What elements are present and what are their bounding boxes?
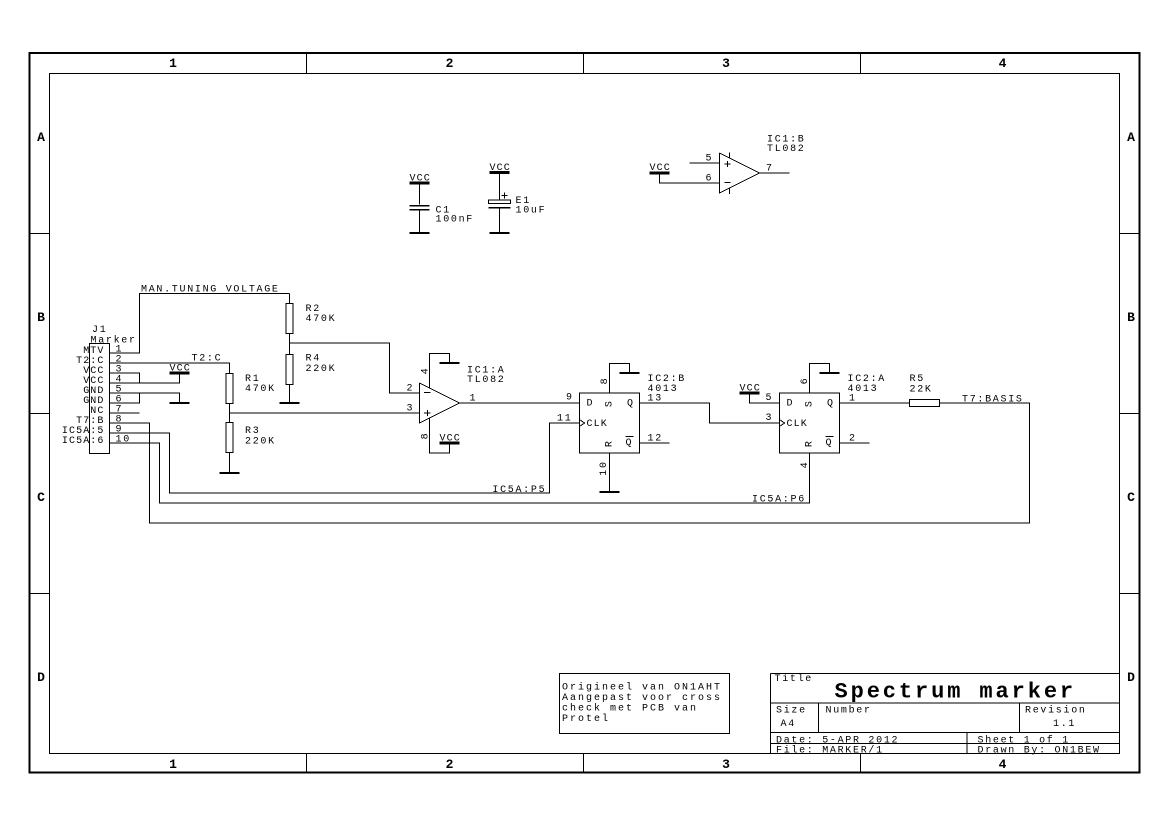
ground bar below E1 bbox=[490, 232, 510, 234]
svg-text:3: 3 bbox=[407, 403, 415, 414]
svg-text:A4: A4 bbox=[781, 719, 796, 730]
ground bar below R3 bbox=[220, 472, 240, 474]
wire R2/R4 junction to IC1:A pin 2 bbox=[290, 343, 420, 394]
svg-text:10: 10 bbox=[599, 460, 610, 475]
capacitor C1 100nF bbox=[410, 183, 475, 233]
svg-text:1: 1 bbox=[169, 56, 177, 71]
svg-text:Aangepast voor cross: Aangepast voor cross bbox=[562, 693, 722, 704]
wire J1 pin2 T2:C to R1 bbox=[110, 363, 230, 374]
svg-text:CLK: CLK bbox=[787, 419, 808, 430]
svg-text:470K: 470K bbox=[306, 314, 337, 325]
svg-text:S: S bbox=[804, 400, 815, 407]
ground bar below C1 bbox=[410, 232, 430, 234]
svg-text:IC5A:P6: IC5A:P6 bbox=[752, 494, 806, 505]
svg-text:1.1: 1.1 bbox=[1053, 719, 1076, 730]
svg-text:Q: Q bbox=[627, 399, 634, 410]
wire J1 pins 5,6 to ground bbox=[110, 393, 180, 403]
svg-text:10: 10 bbox=[116, 434, 131, 445]
svg-text:2: 2 bbox=[446, 56, 454, 71]
svg-text:2: 2 bbox=[849, 433, 857, 444]
net label IC5A:P5 bbox=[492, 485, 546, 496]
wire IC2:A Q pin1 to R5 bbox=[840, 394, 910, 405]
svg-text:2: 2 bbox=[446, 757, 454, 772]
svg-text:13: 13 bbox=[648, 394, 663, 405]
svg-text:4: 4 bbox=[999, 56, 1007, 71]
svg-text:Number: Number bbox=[826, 705, 872, 717]
svg-text:R: R bbox=[604, 440, 615, 447]
op-amp IC1:A TL082 bbox=[420, 366, 506, 424]
wire IC2:A Qbar pin2 stub bbox=[840, 433, 870, 444]
net label MAN.TUNING VOLTAGE bbox=[141, 285, 280, 296]
ground bar below R4 bbox=[280, 402, 300, 404]
svg-text:Origineel van ON1AHT: Origineel van ON1AHT bbox=[562, 682, 722, 694]
svg-text:12: 12 bbox=[648, 433, 663, 444]
svg-text:R4: R4 bbox=[306, 354, 321, 365]
capacitor E1 10uF electrolytic bbox=[489, 173, 547, 234]
svg-text:6: 6 bbox=[706, 173, 714, 184]
wire J1 pin9 to IC5A:P5 / IC2:B CLK pin 11 bbox=[110, 413, 580, 493]
pin 6 wire (IC1:B -) bbox=[660, 173, 720, 184]
wire J1 pin7 NC stub bbox=[110, 412, 140, 414]
flip-flop IC2:B 4013 bbox=[580, 374, 687, 453]
svg-text:T7:BASIS: T7:BASIS bbox=[962, 395, 1024, 406]
svg-text:1: 1 bbox=[169, 757, 177, 772]
flip-flop IC2:A 4013 bbox=[780, 374, 887, 453]
svg-text:11: 11 bbox=[557, 413, 572, 424]
svg-text:2: 2 bbox=[407, 383, 415, 394]
net label T7:BASIS bbox=[962, 395, 1024, 406]
resistor R1 470K bbox=[226, 374, 276, 414]
pin 4 stub with ground bar (IC1:A) bbox=[421, 354, 460, 389]
svg-text:5: 5 bbox=[706, 153, 714, 164]
svg-text:Marker: Marker bbox=[91, 334, 137, 346]
VCC power symbol above C1 bbox=[410, 174, 431, 185]
svg-text:6: 6 bbox=[800, 377, 811, 385]
resistor R4 220K bbox=[286, 343, 336, 403]
pin 4 reset label (IC2:A) bbox=[800, 461, 811, 469]
svg-text:100nF: 100nF bbox=[436, 215, 475, 226]
svg-text:B: B bbox=[1127, 310, 1135, 325]
svg-text:R: R bbox=[804, 440, 815, 447]
pin 6 set stub with ground (IC2:A) bbox=[800, 364, 840, 394]
pin 10 reset to ground (IC2:B) bbox=[599, 453, 620, 492]
pin 5 wire (IC1:B +) bbox=[690, 153, 720, 164]
svg-text:3: 3 bbox=[722, 56, 730, 71]
svg-text:Title: Title bbox=[775, 673, 814, 685]
svg-text:A: A bbox=[37, 130, 45, 145]
ground bar at J1 bbox=[170, 402, 190, 404]
svg-text:Spectrum marker: Spectrum marker bbox=[835, 679, 1077, 704]
svg-text:C: C bbox=[1127, 490, 1135, 505]
svg-text:B: B bbox=[37, 310, 45, 325]
wire J1 pins 3,4 to VCC bbox=[110, 373, 180, 383]
op-amp IC1:B TL082 bbox=[720, 135, 806, 194]
svg-text:MAN.TUNING VOLTAGE: MAN.TUNING VOLTAGE bbox=[141, 285, 280, 296]
svg-text:TL082: TL082 bbox=[767, 144, 806, 155]
VCC power symbol at J1 bbox=[170, 364, 191, 375]
svg-text:4: 4 bbox=[421, 367, 432, 375]
VCC power symbol above E1 bbox=[490, 163, 511, 174]
svg-text:IC5A:6: IC5A:6 bbox=[62, 436, 105, 447]
svg-text:Q: Q bbox=[826, 438, 833, 449]
svg-text:Revision: Revision bbox=[1025, 705, 1087, 717]
svg-text:A: A bbox=[1127, 130, 1135, 145]
title block bbox=[771, 673, 1120, 756]
pin 7 output wire (IC1:B) bbox=[760, 164, 790, 175]
svg-text:Q: Q bbox=[827, 399, 834, 410]
pin 8 stub with VCC (IC1:A) bbox=[421, 418, 461, 453]
svg-text:T2:C: T2:C bbox=[192, 353, 223, 364]
svg-text:IC5A:P5: IC5A:P5 bbox=[492, 485, 546, 496]
svg-text:D: D bbox=[787, 399, 794, 410]
wire IC1:A pin1 output to IC2:B pin9 D bbox=[460, 392, 580, 404]
svg-text:470K: 470K bbox=[245, 384, 276, 395]
svg-text:D: D bbox=[587, 399, 594, 410]
pin 8 set stub with ground (IC2:B) bbox=[600, 364, 640, 394]
svg-text:8: 8 bbox=[421, 432, 432, 440]
svg-text:File: MARKER/1: File: MARKER/1 bbox=[776, 744, 884, 756]
svg-text:7: 7 bbox=[766, 164, 774, 175]
svg-text:3: 3 bbox=[766, 413, 774, 424]
net label T2:C bbox=[192, 353, 223, 364]
svg-text:22K: 22K bbox=[910, 385, 933, 396]
svg-text:220K: 220K bbox=[306, 364, 337, 375]
resistor R2 470K bbox=[286, 294, 336, 344]
svg-text:1: 1 bbox=[849, 394, 857, 405]
svg-text:1: 1 bbox=[470, 394, 478, 405]
sheet title Spectrum marker bbox=[835, 679, 1077, 704]
svg-text:4: 4 bbox=[800, 461, 811, 469]
svg-text:Q: Q bbox=[626, 438, 633, 449]
svg-text:S: S bbox=[604, 400, 615, 407]
svg-text:3: 3 bbox=[722, 757, 730, 772]
VCC symbol at IC1:B pin 6 bbox=[650, 163, 671, 174]
note box bbox=[560, 674, 730, 734]
VCC symbol at IC2:A pin 5 D input bbox=[740, 383, 780, 404]
wire IC2:B Q pin13 to IC2:A CLK pin3 bbox=[640, 394, 780, 424]
wire J1 pin8 T7:B to R5 (bottom net) bbox=[110, 403, 1030, 523]
wire J1 pin1 to MAN.TUNING VOLTAGE net bbox=[110, 294, 290, 354]
svg-text:Drawn By: ON1BEW: Drawn By: ON1BEW bbox=[978, 745, 1101, 756]
resistor R3 220K bbox=[226, 413, 276, 473]
wire IC2:B Qbar pin12 stub bbox=[640, 433, 670, 444]
svg-text:8: 8 bbox=[600, 377, 611, 385]
wire R1/R3 junction to IC1:A pin 3 bbox=[230, 403, 420, 414]
wire J1 pin10 to IC5A:P6 / IC2:A pin 4 bbox=[110, 443, 810, 503]
svg-text:D: D bbox=[37, 670, 45, 685]
svg-text:Protel: Protel bbox=[562, 713, 610, 725]
svg-text:10uF: 10uF bbox=[516, 205, 547, 216]
svg-text:check met PCB van: check met PCB van bbox=[562, 703, 698, 715]
svg-text:5: 5 bbox=[766, 393, 774, 404]
svg-text:Size: Size bbox=[776, 705, 807, 717]
svg-text:TL082: TL082 bbox=[467, 375, 506, 386]
svg-text:C: C bbox=[37, 490, 45, 505]
net label IC5A:P6 bbox=[752, 494, 806, 505]
svg-text:D: D bbox=[1127, 670, 1135, 685]
connector J1 Marker bbox=[62, 325, 137, 454]
svg-text:220K: 220K bbox=[245, 436, 276, 447]
svg-text:9: 9 bbox=[566, 392, 574, 403]
svg-text:4: 4 bbox=[999, 757, 1007, 772]
resistor R5 22K bbox=[910, 374, 940, 406]
svg-text:CLK: CLK bbox=[587, 419, 608, 430]
